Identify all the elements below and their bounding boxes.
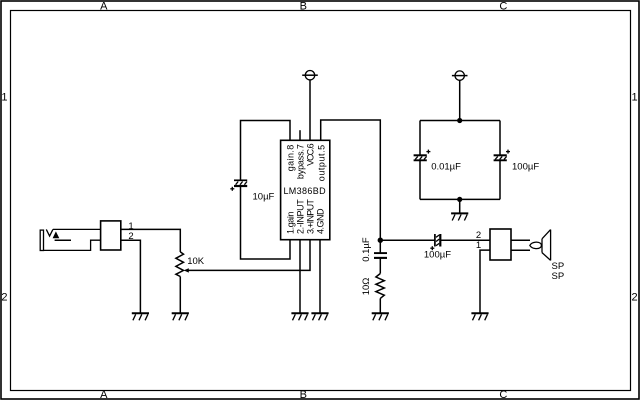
svg-text:B: B	[300, 1, 307, 13]
wire pot bottom to ground	[179, 277, 181, 313]
svg-text:A: A	[100, 389, 108, 400]
ground (pot)	[172, 313, 189, 320]
svg-text:100µF: 100µF	[424, 249, 451, 260]
svg-text:C: C	[499, 1, 507, 13]
ground (IC pin4)	[311, 313, 328, 320]
svg-text:100µF: 100µF	[512, 161, 539, 172]
svg-text:B: B	[300, 389, 307, 400]
wire jack pin1 to potentiometer top	[121, 229, 181, 252]
wire to C4 top	[419, 121, 421, 156]
svg-text:10K: 10K	[187, 256, 205, 267]
wire IC pin5 output to node	[321, 120, 381, 240]
power symbol VCC (IC pin6)	[302, 71, 318, 80]
svg-text:output.5: output.5	[316, 144, 326, 181]
wire IC pin8 gain loop with C1	[241, 121, 291, 181]
wire pot wiper to IC pin3	[188, 240, 311, 270]
wire decoupling bottom rail	[420, 198, 500, 200]
ground (R1)	[372, 313, 389, 320]
capacitor C5 100uF	[494, 150, 510, 161]
wire IC pin2 to ground	[299, 240, 301, 313]
junction top rail	[457, 118, 462, 123]
ground (jack pin2)	[132, 313, 149, 320]
junction bottom rail	[457, 197, 462, 202]
ground (IC pin2)	[291, 313, 308, 320]
wire C1 bottom to IC pin1	[241, 186, 291, 259]
wire C5 bottom to rail	[499, 160, 501, 199]
resistor R1 10ohm	[376, 274, 384, 299]
svg-text:2.-INPUT: 2.-INPUT	[296, 199, 306, 234]
connector J2 speaker	[490, 229, 511, 260]
svg-text:0.01µF: 0.01µF	[431, 161, 461, 172]
capacitor C1 10uF	[230, 180, 247, 191]
wire C2 to R1	[379, 258, 381, 274]
svg-text:1.gain: 1.gain	[286, 211, 296, 234]
capacitor C3 100uF (coupling)	[430, 234, 440, 250]
wire jack pin2 to ground	[121, 240, 141, 312]
svg-text:2: 2	[632, 292, 638, 304]
junction output node	[378, 238, 383, 243]
speaker SP	[511, 230, 551, 261]
power symbol VCC (decoupling net)	[452, 71, 468, 80]
svg-text:0.1µF: 0.1µF	[361, 237, 372, 262]
svg-text:C: C	[499, 389, 507, 400]
svg-text:SP: SP	[552, 271, 565, 282]
svg-text:bypass.7: bypass.7	[296, 144, 306, 179]
capacitor C4 0.01uF	[414, 150, 431, 161]
svg-text:gain.8: gain.8	[286, 144, 296, 171]
svg-text:1: 1	[632, 92, 638, 104]
svg-text:A: A	[100, 1, 108, 13]
svg-text:10Ω: 10Ω	[361, 278, 372, 296]
wire node down to C2	[379, 240, 381, 253]
capacitor C2 0.1uF	[374, 253, 387, 258]
svg-text:3.+INPUT: 3.+INPUT	[306, 199, 316, 234]
svg-text:1: 1	[128, 221, 133, 232]
wire C4 bottom to rail	[419, 160, 421, 199]
connector J1 audio jack	[40, 221, 121, 251]
wire bottom rail to ground	[459, 199, 461, 212]
wire C3 to connector J2 pin2	[441, 239, 490, 241]
wire to C5 top	[499, 121, 501, 156]
wire node to C3	[380, 239, 434, 241]
wire VCC to node	[459, 80, 461, 120]
svg-text:4.GND: 4.GND	[316, 208, 326, 234]
wire VCC to IC pin6	[309, 80, 311, 140]
op-amp IC U1 LM386BD	[281, 140, 330, 239]
svg-text:10µF: 10µF	[253, 191, 275, 202]
wire J2 pin1 to ground	[480, 250, 490, 313]
ground (J2 pin1)	[471, 313, 488, 320]
potentiometer VR1 10K	[176, 252, 189, 277]
wire R1 to ground	[379, 298, 381, 312]
wire decoupling top rail	[420, 120, 500, 122]
wire IC pin7 stub	[299, 130, 301, 140]
ground (decoupling net)	[451, 213, 468, 220]
svg-text:VCC.6: VCC.6	[306, 143, 316, 166]
svg-text:1: 1	[476, 240, 481, 251]
svg-text:LM386BD: LM386BD	[283, 186, 326, 196]
svg-text:2: 2	[1, 292, 7, 304]
wire IC pin4 to ground	[319, 240, 321, 313]
svg-text:1: 1	[1, 92, 7, 104]
